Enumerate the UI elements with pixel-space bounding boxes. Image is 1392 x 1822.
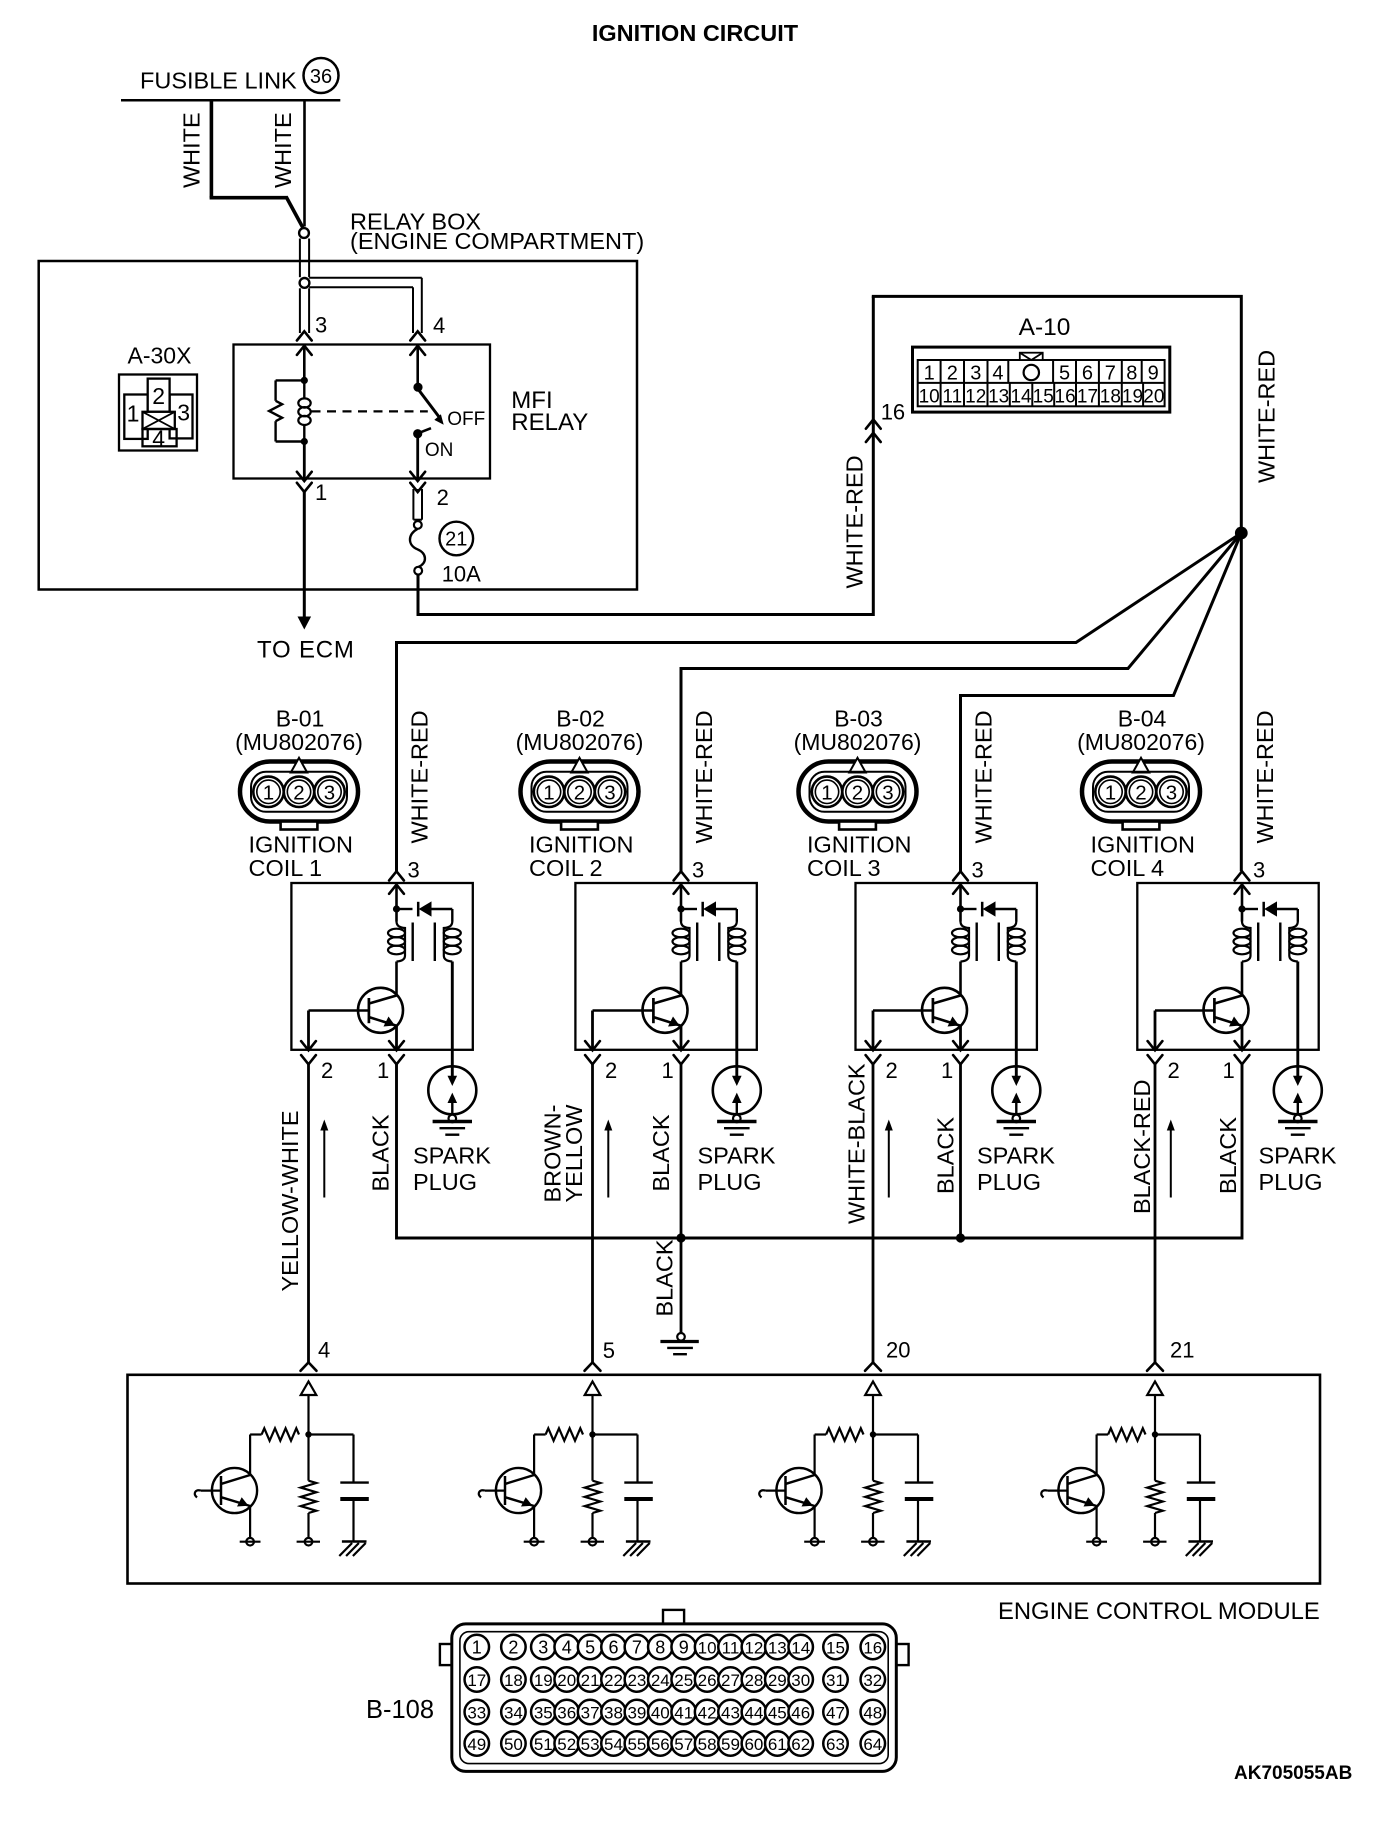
double-line wire into relay box [300,239,309,278]
ECM stage 1 signal ground [339,1542,366,1557]
svg-text:19: 19 [1122,387,1143,408]
ECM stage 4 pull resistor [1143,1435,1166,1546]
svg-text:38: 38 [604,1703,623,1722]
double-line wire to relay pin 4 [309,278,422,333]
junction dot ground bus / coil2 [676,1233,685,1242]
current direction arrow coil 1 [320,1120,328,1198]
svg-text:4: 4 [992,363,1003,385]
svg-text:22: 22 [604,1671,623,1690]
svg-text:2: 2 [1168,1058,1180,1083]
svg-text:3: 3 [1166,781,1177,804]
label WHITE-RED (left riser) [842,455,868,588]
svg-text:45: 45 [768,1703,787,1722]
relay box label [350,209,644,255]
ECM stage 1 transistor [195,1468,261,1546]
svg-text:PLUG: PLUG [977,1169,1041,1195]
label WHITE-RED at coil 3 [971,710,997,843]
svg-text:3: 3 [604,781,615,804]
coil 3 pin 1 wire [959,1026,962,1050]
svg-text:WHITE-RED: WHITE-RED [842,455,868,588]
wire relay pin1 to ECM [298,492,312,630]
svg-text:54: 54 [604,1735,623,1754]
svg-text:25: 25 [674,1671,693,1690]
svg-text:9: 9 [679,1637,689,1657]
svg-text:15: 15 [826,1638,845,1657]
coil 1 pin2 wire to ECM [307,1064,310,1362]
ECM pin 20 [865,1338,910,1371]
circled fuse number 21 [440,522,474,556]
coil 4 transformer core [1258,923,1280,962]
svg-text:2: 2 [321,1058,333,1083]
wire WHITE left from fusible link [210,100,303,228]
svg-text:3: 3 [972,858,984,883]
coil 3 flyback diode [961,901,1017,921]
ECM stage 2 signal ground [623,1542,650,1557]
svg-text:COIL 2: COIL 2 [529,855,603,881]
relay pin 4 [410,313,445,355]
svg-text:20: 20 [886,1338,910,1363]
svg-text:B-108: B-108 [366,1696,434,1724]
ECM stage 1 series resistor [250,1428,299,1475]
svg-text:(MU802076): (MU802076) [235,729,363,755]
ECM stage 3 capacitor [873,1435,933,1542]
label WHITE-BLACK [844,1063,870,1224]
svg-text:48: 48 [863,1703,882,1722]
ignition coil 2 internal box [575,883,756,1050]
junction node white-red fanout [1235,527,1248,540]
spark plug 2 [713,1066,761,1134]
svg-text:YELLOW: YELLOW [561,1104,587,1203]
svg-text:FUSIBLE LINK: FUSIBLE LINK [140,68,297,94]
MFI relay coil parallel resistor [269,380,304,441]
svg-text:12: 12 [744,1638,763,1657]
svg-text:14: 14 [791,1638,810,1657]
current direction arrow coil 2 [604,1120,612,1198]
svg-text:11: 11 [942,387,962,408]
coil 4 pin 3 [1235,858,1266,894]
svg-text:21: 21 [445,529,467,551]
coil 4 pin2 wire to ECM [1154,1064,1157,1362]
label BLACK coil3 [933,1117,959,1194]
svg-text:2: 2 [508,1637,518,1657]
engine control module box [128,1375,1321,1584]
svg-text:IGNITION: IGNITION [1091,831,1195,857]
coil 4 flyback diode [1242,901,1298,921]
svg-text:1: 1 [472,1637,482,1657]
coil 4 high tension lead [1293,962,1303,1087]
ECM stage 2 series resistor [534,1428,583,1475]
svg-text:SPARK: SPARK [698,1143,776,1169]
ECM stage 1 capacitor [309,1435,369,1542]
ignition coil 1 label [249,831,353,881]
svg-text:2: 2 [605,1058,617,1083]
coil 4 secondary winding [1289,922,1306,962]
svg-text:WHITE: WHITE [270,112,296,188]
ignition coil 3 internal box [856,883,1037,1050]
svg-text:7: 7 [632,1637,642,1657]
svg-text:BLACK: BLACK [648,1114,674,1191]
label ON [425,440,454,461]
MFI relay label [511,387,588,436]
svg-text:40: 40 [651,1703,670,1722]
relay pin 2 [410,472,449,510]
svg-text:35: 35 [534,1703,553,1722]
coil 3 pin 3 [953,858,984,894]
ECM pin 5 [585,1338,616,1371]
svg-text:BLACK: BLACK [368,1114,394,1191]
svg-text:2: 2 [574,781,585,804]
svg-text:34: 34 [504,1703,523,1722]
svg-text:IGNITION: IGNITION [807,831,911,857]
spark plug 4 label [1259,1143,1337,1195]
label YELLOW-WHITE [277,1110,303,1291]
label WHITE-RED (right riser) [1254,350,1280,483]
svg-text:58: 58 [698,1735,717,1754]
svg-text:3: 3 [1253,858,1265,883]
coil 3 pin2 wire to ECM [872,1064,875,1362]
wire relay pin2 to fuse [413,489,422,520]
svg-text:WHITE-BLACK: WHITE-BLACK [844,1063,870,1224]
svg-text:59: 59 [721,1735,740,1754]
svg-text:(ENGINE COMPARTMENT): (ENGINE COMPARTMENT) [350,228,644,254]
relay pin 3 [297,313,327,355]
svg-text:2: 2 [852,781,863,804]
ignition coil 3 label [807,831,911,881]
label 10A [442,562,481,587]
fuse 21 10A [410,521,425,575]
svg-text:10: 10 [698,1638,717,1657]
svg-text:30: 30 [791,1671,810,1690]
svg-text:SPARK: SPARK [977,1143,1055,1169]
svg-text:8: 8 [1126,363,1137,385]
connector A-10 pin table [913,347,1170,412]
label WHITE-RED at coil 2 [691,710,717,843]
coil 2 flyback diode [681,901,737,921]
coil 3 transformer core [977,923,999,962]
svg-text:23: 23 [627,1671,646,1690]
svg-text:28: 28 [744,1671,763,1690]
coil 3 secondary winding [1008,922,1025,962]
svg-text:20: 20 [557,1671,576,1690]
svg-text:PLUG: PLUG [413,1169,477,1195]
svg-text:51: 51 [534,1735,553,1754]
connector B-03 face view [799,758,917,830]
coil 2 primary winding [673,922,690,962]
svg-text:SPARK: SPARK [413,1143,491,1169]
wire WHITE-RED top run [872,296,1242,871]
coil 1 pin 2 [301,1041,333,1083]
ECM driver stage 2 input triangle [585,1382,601,1438]
label WHITE (left wire) [179,112,205,188]
ECM pin 4 [301,1338,331,1371]
coil 2 driver transistor [593,962,688,1033]
svg-text:B-01: B-01 [276,705,325,731]
svg-text:27: 27 [721,1671,740,1690]
relay coil wire to pin 1 [303,442,306,479]
title IGNITION CIRCUIT [592,20,799,46]
connector A-30X label [128,343,192,369]
svg-text:36: 36 [310,66,332,88]
ECM stage 2 capacitor [593,1435,653,1542]
coil 2 pin 1 [662,1041,689,1083]
svg-text:3: 3 [970,363,981,385]
svg-text:3: 3 [408,858,420,883]
svg-text:37: 37 [581,1703,600,1722]
svg-text:1: 1 [662,1058,674,1083]
svg-text:10A: 10A [442,562,481,587]
svg-text:2: 2 [886,1058,898,1083]
ECM stage 3 signal ground [904,1542,931,1557]
coil 1 pin 3 [389,858,420,894]
coil 4 supply node [1238,885,1245,922]
svg-text:7: 7 [1105,363,1116,385]
connector bullet at relay box entry [299,228,309,238]
relay actuation dashed link [312,410,428,412]
svg-text:18: 18 [504,1671,523,1690]
ECM stage 4 signal ground [1186,1542,1213,1557]
svg-text:WHITE-RED: WHITE-RED [1254,350,1280,483]
svg-text:63: 63 [826,1735,845,1754]
svg-text:BLACK: BLACK [933,1117,959,1194]
label WHITE-RED at coil 1 [407,710,433,843]
svg-text:53: 53 [581,1735,600,1754]
svg-text:5: 5 [585,1637,595,1657]
connector A-30X symbol [119,375,197,452]
relay box outline [39,261,637,590]
svg-text:14: 14 [1010,387,1032,408]
coil 2 pin2 wire to ECM [591,1064,594,1362]
connector A-10 label [1019,314,1071,341]
relay pin 1 [297,472,327,505]
svg-text:1: 1 [821,781,832,804]
svg-text:31: 31 [826,1671,845,1690]
wire bus to chassis ground [680,1238,683,1334]
coil 1 pin 1 [377,1041,404,1083]
coil 2 high tension lead [732,962,742,1087]
coil 1 primary winding [388,922,405,962]
svg-text:3: 3 [882,781,893,804]
ECM stage 3 series resistor [815,1428,864,1475]
coil 1 transformer core [413,923,435,962]
connector B-108 pins [465,1635,886,1756]
connector B-03 label [794,705,922,755]
svg-text:2: 2 [152,383,165,409]
ECM driver stage 1 input triangle [301,1382,317,1438]
fusible link circled 36 [304,58,339,93]
svg-text:3: 3 [324,781,335,804]
coil 1 flyback diode [397,901,453,921]
svg-text:BLACK-RED: BLACK-RED [1129,1079,1155,1214]
svg-text:ON: ON [425,440,454,461]
coil 3 pin 2 wire [872,1011,875,1050]
svg-text:64: 64 [863,1735,882,1754]
svg-text:WHITE: WHITE [179,112,205,188]
ECM stage 1 pull resistor [297,1435,320,1546]
ECM pin 21 [1147,1338,1194,1371]
MFI relay coil (inductor) [298,377,310,445]
svg-text:17: 17 [467,1671,486,1690]
coil 4 pin 2 [1148,1041,1180,1083]
label WHITE (right wire) [270,112,296,188]
svg-text:17: 17 [1077,387,1098,408]
fusible link bus bar [121,99,340,102]
coil 1 secondary winding [444,922,461,962]
svg-text:24: 24 [651,1671,670,1690]
ECM stage 2 pull resistor [581,1435,604,1546]
svg-text:BLACK: BLACK [1215,1117,1241,1194]
svg-text:3: 3 [315,313,327,338]
engine control module label [998,1598,1320,1625]
svg-text:(MU802076): (MU802076) [1077,729,1205,755]
coil 1 pin 2 wire [307,1011,310,1050]
svg-text:61: 61 [768,1735,787,1754]
spark plug 3 [992,1066,1040,1134]
drawing number AK705055AB [1234,1763,1352,1784]
svg-text:2: 2 [293,781,304,804]
svg-text:A-10: A-10 [1019,314,1071,341]
ECM stage 2 transistor [479,1468,545,1546]
svg-text:15: 15 [1033,387,1054,408]
svg-text:16: 16 [1055,387,1076,408]
ECM stage 4 capacitor [1155,1435,1215,1542]
coil 1 driver transistor [309,962,404,1033]
svg-text:1: 1 [1105,781,1116,804]
svg-text:1: 1 [315,480,327,505]
branch wire to ignition coil 2 [681,533,1241,871]
ground bus wire [397,1064,1243,1238]
coil 4 primary winding [1234,922,1251,962]
coil 3 supply node [957,885,964,922]
coil 2 pin 2 [585,1041,617,1083]
svg-text:AK705055AB: AK705055AB [1234,1763,1352,1784]
svg-text:B-04: B-04 [1118,705,1167,731]
label TO ECM [257,637,355,664]
svg-text:WHITE-RED: WHITE-RED [1252,710,1278,843]
svg-text:1: 1 [1223,1058,1235,1083]
coil 2 pin 1 wire [680,1026,683,1050]
coil 4 pin 1 wire [1241,1026,1244,1050]
svg-text:COIL 4: COIL 4 [1091,855,1165,881]
label OFF [447,409,485,430]
svg-text:A-30X: A-30X [128,343,192,369]
svg-text:2: 2 [947,363,958,385]
svg-text:6: 6 [608,1637,618,1657]
junction dot ground bus / coil3 [956,1233,965,1242]
connector bullet inside relay box [300,278,310,288]
svg-text:COIL 3: COIL 3 [807,855,881,881]
ECM stage 3 pull resistor [861,1435,884,1546]
svg-text:IGNITION: IGNITION [249,831,353,857]
svg-text:60: 60 [744,1735,763,1754]
svg-text:52: 52 [557,1735,576,1754]
svg-text:62: 62 [791,1735,810,1754]
wire fuse to A-10 pin 16 [418,296,873,614]
svg-text:33: 33 [467,1703,486,1722]
svg-text:11: 11 [722,1638,740,1657]
svg-text:16: 16 [881,400,905,425]
svg-text:13: 13 [988,387,1009,408]
svg-text:20: 20 [1143,387,1164,408]
label BROWN-YELLOW [540,1104,588,1203]
svg-text:1: 1 [543,781,554,804]
svg-text:(MU802076): (MU802076) [516,729,644,755]
svg-text:2: 2 [1135,781,1146,804]
spark plug 1 label [413,1143,491,1195]
svg-text:8: 8 [655,1637,665,1657]
connector B-108 shell [440,1610,909,1772]
svg-text:12: 12 [965,387,986,408]
ECM stage 4 transistor [1041,1468,1107,1546]
svg-text:4: 4 [433,313,445,338]
svg-text:4: 4 [562,1637,572,1657]
coil 3 high tension lead [1012,962,1022,1087]
svg-text:18: 18 [1100,387,1121,408]
svg-text:YELLOW-WHITE: YELLOW-WHITE [277,1110,303,1291]
svg-text:44: 44 [744,1703,763,1722]
coil 1 high tension lead [448,962,458,1087]
connector B-01 label [235,705,363,755]
label BLACK-RED [1129,1079,1155,1214]
ignition coil 2 label [529,831,633,881]
coil 4 driver transistor [1155,962,1249,1033]
connector B-108 label [366,1696,434,1724]
svg-text:29: 29 [768,1671,787,1690]
svg-text:1: 1 [263,781,274,804]
coil 3 pin 1 [941,1041,968,1083]
connector B-04 label [1077,705,1205,755]
svg-text:3: 3 [538,1637,548,1657]
svg-text:10: 10 [919,387,940,408]
ignition coil 4 internal box [1137,883,1318,1050]
svg-text:B-03: B-03 [834,705,883,731]
current direction arrow coil 4 [1167,1120,1175,1198]
svg-text:TO ECM: TO ECM [257,637,355,664]
svg-text:BLACK: BLACK [652,1239,678,1316]
svg-text:49: 49 [467,1735,486,1754]
coil 2 secondary winding [728,922,745,962]
svg-text:IGNITION: IGNITION [529,831,633,857]
svg-text:RELAY: RELAY [511,409,588,436]
svg-text:42: 42 [698,1703,717,1722]
coil 3 primary winding [952,922,969,962]
svg-text:SPARK: SPARK [1259,1143,1337,1169]
svg-text:(MU802076): (MU802076) [794,729,922,755]
svg-text:47: 47 [826,1703,845,1722]
svg-text:41: 41 [674,1703,693,1722]
coil 1 supply node [393,885,400,922]
coil 3 driver transistor [873,962,967,1033]
coil 2 pin 2 wire [591,1011,594,1050]
svg-text:46: 46 [791,1703,810,1722]
MFI relay box [234,345,491,479]
svg-text:39: 39 [627,1703,646,1722]
connector A-10 pin 16 [866,400,905,443]
ignition coil 4 label [1091,831,1195,881]
coil 2 transformer core [697,923,719,962]
ECM driver stage 4 input triangle [1147,1382,1163,1438]
ECM stage 4 series resistor [1097,1428,1146,1475]
label WHITE-RED at coil 4 [1252,710,1278,843]
svg-text:4: 4 [152,426,165,452]
svg-text:5: 5 [603,1338,615,1363]
svg-text:OFF: OFF [447,409,485,430]
svg-text:B-02: B-02 [556,705,605,731]
svg-text:13: 13 [768,1638,787,1657]
label BLACK coil2 [648,1114,674,1191]
branch wire to ignition coil 3 [961,533,1242,871]
relay switch [413,346,444,439]
current direction arrow coil 3 [885,1120,893,1198]
